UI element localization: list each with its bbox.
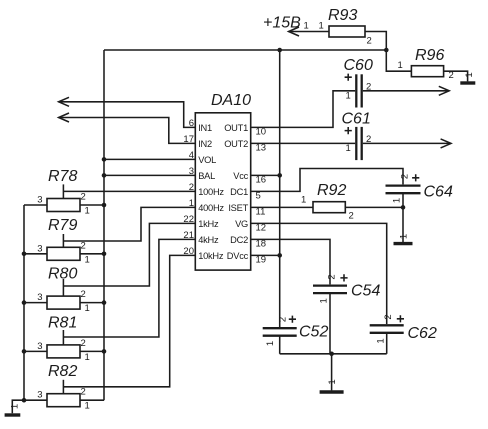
resistor R93 — [328, 7, 365, 37]
wire input arrow 2 to IN2 — [59, 113, 196, 143]
svg-text:3: 3 — [189, 166, 194, 177]
svg-text:C60: C60 — [344, 57, 373, 74]
node junction R93/rail-A — [384, 48, 389, 53]
svg-text:DC1: DC1 — [230, 187, 248, 197]
node C64/R92 junction — [401, 205, 406, 210]
svg-text:1: 1 — [327, 379, 338, 384]
node R80 pin1 junction — [102, 300, 107, 305]
svg-text:1: 1 — [319, 298, 330, 303]
wire R93 pin2 down to rail and to R96 pin1 — [365, 32, 411, 72]
wire R82 wiper to 10kHz — [63, 255, 195, 386]
wire R78 pin3 — [24, 204, 47, 206]
wire C60 pin2 output arrow — [363, 86, 449, 95]
potentiometer R78 — [37, 168, 90, 217]
wire R81 pin3 — [24, 350, 47, 352]
node rail A / rail B junction — [277, 48, 282, 53]
wire R80 wiper to 1kHz — [63, 223, 195, 286]
IC left pin names — [198, 123, 224, 261]
node R81 pin3 junction — [22, 349, 27, 354]
wire to bottom ground — [331, 354, 333, 391]
wire R79 wiper to 400Hz — [63, 207, 195, 241]
wire R82 pin3 — [24, 399, 47, 401]
svg-text:OUT2: OUT2 — [224, 139, 248, 149]
svg-text:1: 1 — [85, 401, 90, 412]
potentiometer R80 — [37, 266, 90, 315]
ground at R96 — [460, 72, 475, 83]
svg-text:IN2: IN2 — [198, 139, 212, 149]
wire DVcc to rail B — [251, 254, 280, 256]
IC left pin numbers — [183, 118, 194, 257]
node Vcc junction — [277, 173, 282, 178]
svg-text:2: 2 — [81, 240, 86, 251]
IC right pin numbers — [256, 126, 267, 265]
svg-text:Vcc: Vcc — [233, 171, 248, 181]
potentiometer R81 — [37, 314, 90, 363]
svg-text:2: 2 — [349, 211, 354, 222]
svg-text:1: 1 — [304, 21, 309, 32]
wire R80 pin3 — [24, 302, 47, 304]
svg-text:400Hz: 400Hz — [198, 203, 224, 213]
wire R81 pin1 — [80, 350, 104, 352]
wire R79 pin3 — [24, 253, 47, 255]
svg-text:1: 1 — [375, 338, 386, 343]
node VOL junction — [102, 157, 107, 162]
wire C61 pin2 output arrow — [363, 139, 451, 148]
ground bottom-left — [5, 404, 21, 415]
node DVcc junction — [277, 253, 282, 258]
svg-text:2: 2 — [81, 338, 86, 349]
svg-text:1: 1 — [265, 341, 276, 346]
svg-text:3: 3 — [37, 341, 42, 352]
capacitor C64 — [386, 174, 453, 203]
wire BAL stub — [104, 174, 195, 176]
ground bottom-middle — [320, 379, 344, 392]
wire left pin1 bus vertical — [103, 50, 105, 400]
svg-text:4: 4 — [189, 150, 194, 161]
svg-text:1: 1 — [464, 72, 475, 77]
node R79 pin3 junction — [22, 252, 27, 257]
svg-text:VG: VG — [235, 219, 248, 229]
svg-text:ISET: ISET — [228, 203, 248, 213]
wire left pin3 bus vertical — [23, 205, 25, 400]
svg-text:DA10: DA10 — [211, 92, 251, 109]
ground at C64 — [394, 234, 413, 244]
svg-text:C62: C62 — [408, 325, 437, 342]
wire C64 pin1 to ISET node and ground — [402, 193, 404, 242]
node BAL junction — [102, 173, 107, 178]
svg-text:3: 3 — [37, 243, 42, 254]
wire R80 pin1 — [80, 302, 104, 304]
wire DC1 to C64 — [251, 169, 403, 192]
wire R82 pin1 — [80, 399, 104, 401]
svg-text:1: 1 — [346, 143, 351, 154]
svg-text:R92: R92 — [317, 182, 346, 199]
IC right pin names — [224, 123, 248, 261]
wire R81 wiper to 4kHz — [63, 239, 195, 337]
svg-text:2: 2 — [81, 192, 86, 203]
svg-text:DC2: DC2 — [230, 235, 248, 245]
capacitor C52 — [263, 316, 329, 347]
svg-text:R79: R79 — [48, 217, 77, 234]
svg-text:VOL: VOL — [198, 155, 216, 165]
svg-text:2: 2 — [326, 274, 337, 279]
svg-text:BAL: BAL — [198, 171, 215, 181]
capacitor C61 — [342, 111, 372, 161]
svg-text:2: 2 — [277, 317, 288, 322]
svg-text:R82: R82 — [48, 363, 77, 380]
node R80 pin3 junction — [22, 300, 27, 305]
capacitor C62 — [370, 314, 437, 343]
wire C62 pin1 to bottom rail — [386, 333, 388, 354]
svg-text:C61: C61 — [342, 111, 371, 128]
svg-text:17: 17 — [183, 134, 194, 145]
resistor R96 — [411, 47, 444, 77]
wire Vcc to rail B — [251, 174, 280, 176]
wire rail A top horizontal — [104, 49, 386, 51]
svg-text:2: 2 — [367, 36, 372, 47]
wire R92 pin2 to C64 node — [345, 206, 403, 208]
svg-text:1: 1 — [85, 303, 90, 314]
wire VOL stub — [104, 158, 195, 160]
svg-text:1: 1 — [85, 352, 90, 363]
svg-text:OUT1: OUT1 — [224, 123, 248, 133]
svg-text:C64: C64 — [424, 184, 453, 201]
svg-text:2: 2 — [81, 289, 86, 300]
wire DC2 to C54 — [251, 239, 330, 284]
svg-text:100Hz: 100Hz — [198, 187, 224, 197]
wire R78 pin1 — [80, 204, 104, 206]
wire C52 pin1 to bottom rail — [279, 336, 281, 354]
node R81 pin1 junction — [102, 349, 107, 354]
svg-text:3: 3 — [37, 195, 42, 206]
wire OUT2 to C61 — [251, 142, 356, 144]
svg-text:1: 1 — [301, 195, 306, 206]
svg-text:3: 3 — [37, 292, 42, 303]
svg-text:C52: C52 — [299, 324, 328, 341]
resistor R92 — [301, 182, 354, 222]
svg-text:1: 1 — [85, 206, 90, 217]
svg-text:2: 2 — [449, 70, 454, 81]
wire +15V arrow to R93 pin1 — [289, 21, 329, 37]
svg-text:IN1: IN1 — [198, 123, 212, 133]
svg-text:1: 1 — [346, 91, 351, 102]
wire rail B vertical to C52 — [279, 50, 281, 328]
svg-text:6: 6 — [189, 118, 194, 129]
wire OUT1 to C60 — [251, 91, 356, 128]
wire R78 wiper to 100Hz — [63, 190, 195, 192]
node R78 pin1 junction — [102, 203, 107, 208]
svg-text:1: 1 — [398, 60, 403, 71]
op-amp U1 DA10 IC box — [195, 92, 251, 270]
svg-text:R93: R93 — [328, 7, 357, 24]
svg-text:2: 2 — [81, 387, 86, 398]
wire R96 pin2 to ground — [444, 70, 468, 81]
potentiometer R82 — [37, 363, 90, 412]
svg-text:1: 1 — [392, 198, 403, 203]
wire to bottom-left ground — [12, 400, 24, 413]
svg-text:1: 1 — [85, 254, 90, 265]
wire C54 pin1 to bottom rail — [329, 293, 331, 354]
wire ISET to R92 pin1 — [251, 206, 313, 208]
svg-text:R96: R96 — [415, 47, 444, 64]
svg-text:1: 1 — [10, 404, 21, 409]
svg-text:DVcc: DVcc — [227, 251, 249, 261]
svg-text:1kHz: 1kHz — [198, 219, 219, 229]
wire input arrow 1 to IN1 — [59, 97, 196, 127]
wire VG to C62 — [251, 223, 387, 324]
svg-text:C54: C54 — [351, 283, 380, 300]
svg-text:1: 1 — [319, 21, 324, 32]
svg-text:2: 2 — [400, 174, 411, 179]
capacitor C60 — [344, 57, 373, 108]
node bottom ground junction — [329, 352, 334, 357]
svg-text:1: 1 — [399, 234, 410, 239]
wire bottom ground rail — [280, 353, 387, 355]
svg-text:3: 3 — [37, 390, 42, 401]
svg-text:R78: R78 — [48, 168, 77, 185]
svg-text:10kHz: 10kHz — [198, 251, 224, 261]
node +15V supply label — [263, 15, 301, 32]
svg-text:2: 2 — [383, 314, 394, 319]
node R79 pin1 junction — [102, 252, 107, 257]
capacitor C54 — [313, 274, 380, 303]
wire R79 pin1 — [80, 253, 104, 255]
potentiometer R79 — [37, 217, 90, 265]
svg-text:4kHz: 4kHz — [198, 235, 219, 245]
svg-text:R81: R81 — [48, 314, 77, 331]
node R82 pin3 junction — [22, 398, 27, 403]
